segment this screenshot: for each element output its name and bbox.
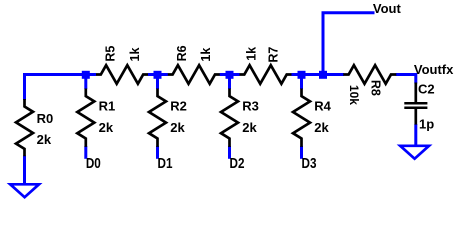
wire: Vout riser [323, 13, 375, 75]
svg-text:R0: R0 [37, 111, 54, 126]
wire stubs at R7 [230, 73, 240, 76]
junction node Vout riser [319, 71, 327, 79]
svg-text:C2: C2 [418, 81, 435, 96]
svg-text:R8: R8 [369, 80, 383, 96]
svg-text:1k: 1k [245, 47, 259, 61]
junction node 2 [154, 71, 162, 79]
resistor R4 body [293, 89, 310, 147]
svg-text:2k: 2k [314, 120, 329, 135]
capacitor C2 top lead [414, 83, 417, 103]
svg-text:R3: R3 [242, 99, 259, 114]
wire: R4 bottom stub to D3 [300, 146, 303, 159]
junction node 3 [226, 71, 234, 79]
svg-text:2k: 2k [99, 120, 114, 135]
svg-text:R2: R2 [170, 99, 187, 114]
wire: R3 bottom stub to D2 [228, 146, 231, 159]
resistor R7 body [239, 65, 292, 84]
junction node 4 [298, 71, 306, 79]
svg-text:1k: 1k [199, 48, 213, 62]
svg-text:Vout: Vout [373, 1, 402, 16]
wire: R2 bottom stub to D1 [156, 146, 159, 159]
svg-text:D0: D0 [86, 155, 101, 172]
resistor R3 body [221, 89, 238, 147]
wire: R8 right lead to Voutfx corner down to C2 [396, 75, 416, 84]
capacitor C2 bottom lead [414, 109, 417, 125]
wire: R1 bottom stub to D0 [84, 146, 87, 159]
junction node 1 [82, 71, 90, 79]
svg-text:2k: 2k [170, 120, 185, 135]
ground under C2 [400, 146, 429, 159]
wire: C2 bottom to right ground [414, 124, 417, 146]
svg-text:2k: 2k [242, 120, 257, 135]
svg-text:D1: D1 [158, 155, 173, 172]
wire: node2 down to R2 [156, 73, 159, 89]
svg-text:1p: 1p [419, 117, 434, 132]
svg-text:R4: R4 [314, 99, 331, 114]
svg-text:R6: R6 [175, 45, 189, 61]
wire stubs at R6 [158, 73, 168, 76]
svg-text:R1: R1 [99, 99, 116, 114]
svg-text:2k: 2k [37, 132, 52, 147]
wire: bus node4 to R8 left lead [302, 73, 345, 76]
svg-text:1k: 1k [128, 48, 142, 62]
capacitor C2 plates [404, 102, 427, 105]
wire: node3 down to R3 [228, 73, 231, 89]
resistor R0 body [16, 99, 33, 156]
resistor R8 body [343, 65, 396, 84]
resistor R5 body [96, 65, 149, 84]
resistor R6 body [167, 65, 220, 84]
resistor R2 body [149, 89, 166, 147]
svg-text:D3: D3 [302, 155, 317, 172]
wire stubs at R5 [86, 73, 96, 76]
svg-text:Voutfx: Voutfx [414, 62, 454, 77]
ground under R0 [10, 184, 39, 197]
svg-text:R5: R5 [103, 46, 117, 62]
wire: left corner from R0 up to bus, bus to node 1 [25, 75, 86, 101]
wire: node1 down to R1 [84, 73, 87, 89]
svg-text:D2: D2 [230, 155, 245, 172]
wire: node4 down to R4 [300, 73, 303, 89]
svg-text:R7: R7 [266, 47, 280, 63]
wire: R0 bottom to left ground [23, 156, 26, 186]
svg-text:10k: 10k [347, 85, 361, 105]
resistor R1 body [77, 89, 94, 147]
